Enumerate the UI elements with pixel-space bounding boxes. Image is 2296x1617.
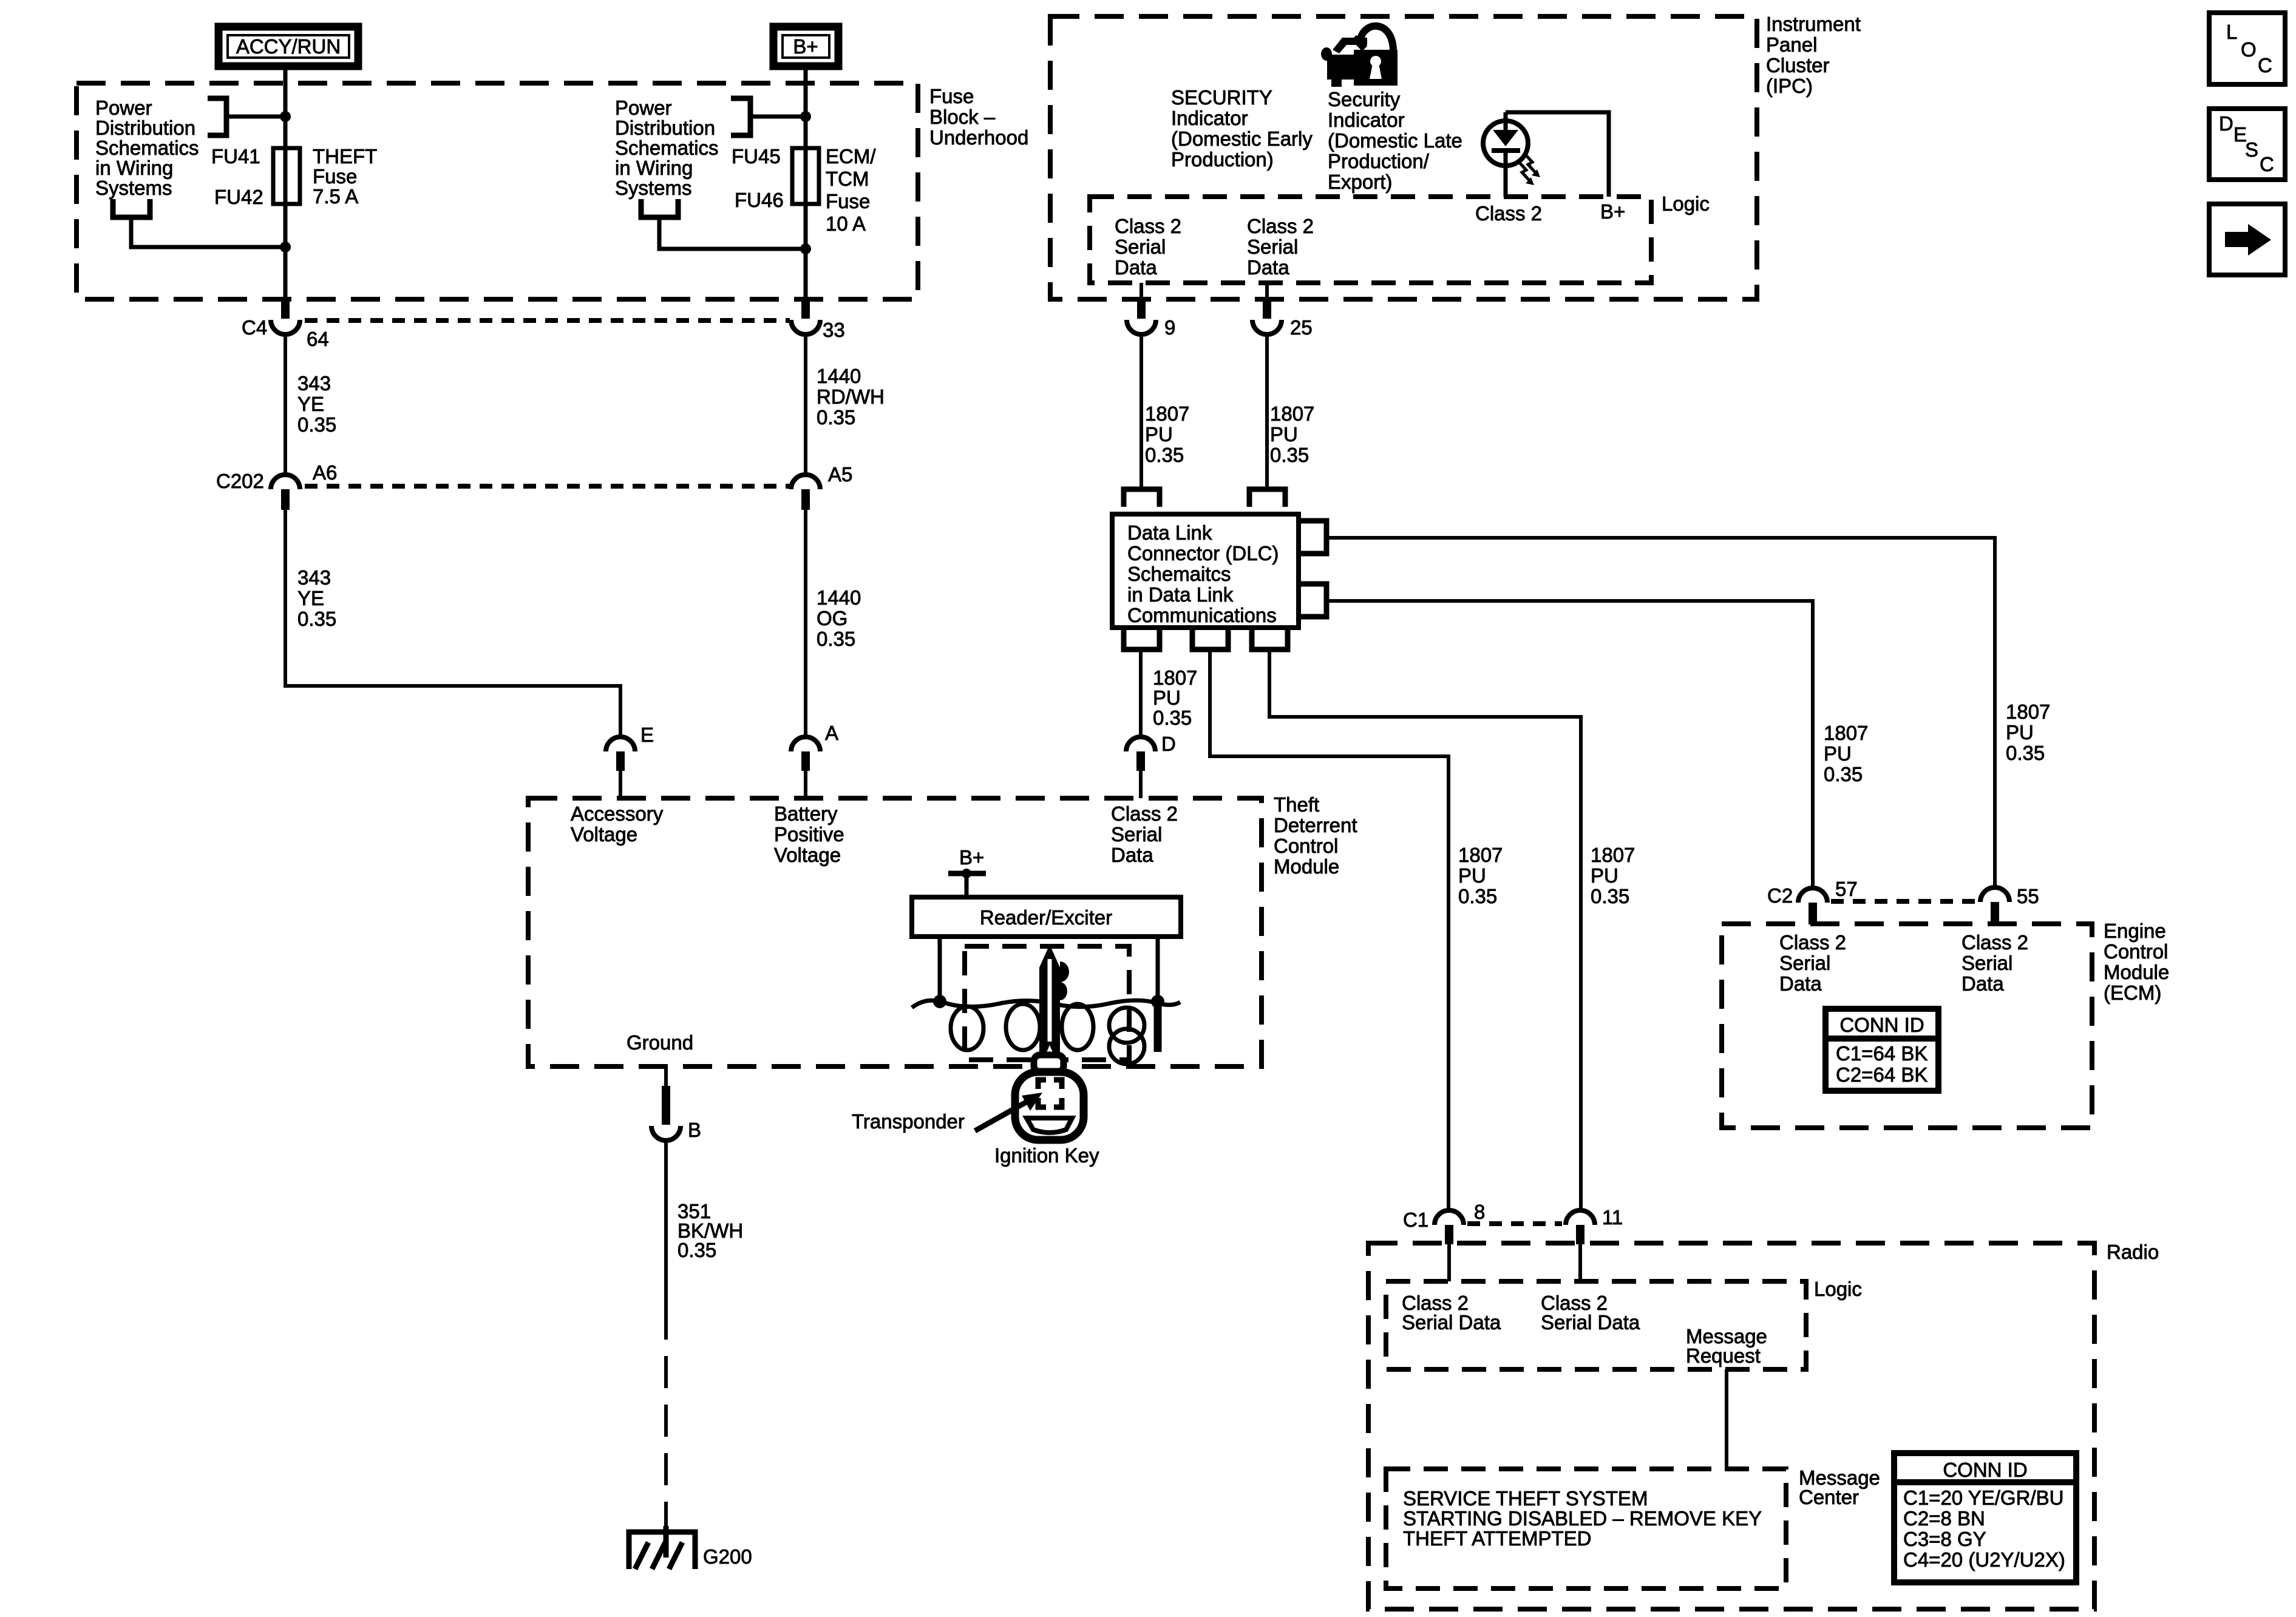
svg-text:C4=20 (U2Y/U2X): C4=20 (U2Y/U2X) — [1903, 1548, 2065, 1571]
LED light arrows — [1519, 154, 1535, 180]
wire 343 YE upper — [284, 334, 287, 475]
wire ground to connector B — [664, 1066, 668, 1087]
svg-text:B+: B+ — [793, 35, 818, 58]
svg-text:55: 55 — [2017, 885, 2039, 907]
svg-text:Center: Center — [1799, 1486, 1859, 1508]
svg-text:11: 11 — [1602, 1206, 1623, 1229]
label Class 2 Serial Data (ECM 57) — [1779, 931, 1846, 995]
svg-text:Class 2: Class 2 — [1961, 931, 2028, 954]
svg-text:Communications: Communications — [1127, 604, 1277, 626]
label Class 2 Serial Data (theft module) — [1111, 802, 1178, 866]
wire LED to B+ leg — [1506, 112, 1609, 197]
label 343 YE 0.35 lower — [297, 566, 336, 630]
LED security lamp — [1483, 112, 1528, 197]
svg-text:Data: Data — [1779, 972, 1822, 995]
svg-text:Underhood: Underhood — [929, 126, 1028, 149]
svg-text:8: 8 — [1474, 1201, 1485, 1223]
junction node left coil — [933, 995, 946, 1008]
label Message Request — [1686, 1325, 1767, 1367]
svg-text:Class 2: Class 2 — [1115, 215, 1181, 237]
svg-text:Instrument: Instrument — [1766, 13, 1861, 35]
svg-text:Security: Security — [1328, 88, 1401, 110]
svg-text:1807: 1807 — [1153, 666, 1197, 689]
connector 55 at ECM — [1980, 887, 2009, 902]
coil loop 2 — [1006, 1004, 1040, 1050]
svg-text:C4: C4 — [242, 316, 267, 339]
svg-text:C1=64 BK: C1=64 BK — [1836, 1042, 1927, 1065]
DESC legend box — [2209, 109, 2285, 180]
svg-text:0.35: 0.35 — [817, 628, 855, 650]
svg-text:10 A: 10 A — [826, 212, 866, 235]
svg-text:1807: 1807 — [1824, 722, 1868, 744]
svg-text:O: O — [2241, 38, 2257, 61]
svg-text:0.35: 0.35 — [297, 608, 336, 630]
label 1807 PU 0.35 (wire 8) — [1458, 844, 1503, 907]
connector 33 — [801, 299, 810, 319]
wire 343 YE lower to E — [285, 510, 620, 737]
svg-text:Cluster: Cluster — [1766, 54, 1830, 76]
theft deterrent control module dashed box — [528, 798, 1262, 1066]
label Instrument Panel Cluster (IPC) — [1766, 13, 1861, 97]
connector B — [651, 1126, 681, 1141]
coil loop 3 — [1062, 1004, 1093, 1050]
svg-text:Class 2: Class 2 — [1247, 215, 1314, 237]
ignition key head — [1015, 1072, 1084, 1140]
LOC legend box — [2209, 13, 2285, 84]
svg-text:A5: A5 — [828, 463, 852, 486]
svg-text:C1=20 YE/GR/BU: C1=20 YE/GR/BU — [1903, 1486, 2063, 1509]
svg-text:PU: PU — [1591, 864, 1618, 887]
svg-text:Ground: Ground — [627, 1031, 693, 1054]
ECM dashed box — [1722, 924, 2092, 1128]
svg-text:YE: YE — [297, 393, 324, 415]
svg-text:Production): Production) — [1171, 148, 1274, 171]
label Security Indicator (Domestic Late Production/Export) — [1328, 88, 1462, 193]
DLC top pin bracket right — [1249, 489, 1285, 507]
svg-text:D: D — [2219, 112, 2233, 135]
svg-text:Request: Request — [1686, 1344, 1761, 1367]
arrow legend box — [2209, 204, 2285, 275]
svg-text:1807: 1807 — [2006, 700, 2050, 723]
label Theft Deterrent Control Module — [1274, 793, 1357, 878]
security indicator icon car with padlock — [1321, 38, 1398, 87]
svg-text:RD/WH: RD/WH — [817, 385, 885, 408]
label Transponder — [852, 1110, 965, 1133]
svg-text:Logic: Logic — [1662, 192, 1710, 215]
label Class 2 Serial Data (radio 8) — [1402, 1292, 1501, 1334]
label 1807 PU 0.35 (wire D) — [1153, 666, 1197, 729]
svg-text:(ECM): (ECM) — [2104, 981, 2161, 1004]
label Battery Positive Voltage — [774, 802, 844, 866]
svg-text:Control: Control — [2104, 940, 2168, 963]
svg-text:Data: Data — [1115, 256, 1157, 279]
svg-text:Serial: Serial — [1111, 823, 1162, 846]
svg-text:Block –: Block – — [929, 106, 996, 128]
label 351 BK/WH 0.35 — [678, 1200, 743, 1261]
wire 1807 PU pin25 to DLC — [1265, 334, 1269, 489]
svg-text:B+: B+ — [1600, 200, 1625, 223]
svg-text:Class 2: Class 2 — [1779, 931, 1846, 954]
svg-text:Module: Module — [2104, 961, 2169, 983]
svg-text:PU: PU — [1145, 423, 1173, 446]
label Fuse Block - Underhood — [929, 85, 1028, 149]
svg-text:0.35: 0.35 — [1824, 763, 1863, 785]
svg-text:Positive: Positive — [774, 823, 844, 846]
DLC bottom pin bracket middle — [1192, 630, 1228, 649]
svg-text:Systems: Systems — [615, 177, 692, 199]
connector plane line C4 row — [305, 318, 790, 323]
DLC right pin bracket lower — [1301, 584, 1326, 617]
svg-text:THEFT: THEFT — [313, 145, 377, 168]
svg-text:B: B — [688, 1119, 701, 1141]
svg-text:Schematics: Schematics — [615, 137, 719, 159]
DLC top pin bracket left — [1124, 489, 1160, 507]
connector 25 — [1265, 283, 1269, 299]
svg-text:STARTING DISABLED – REMOVE KEY: STARTING DISABLED – REMOVE KEY — [1403, 1507, 1762, 1530]
svg-text:Power: Power — [95, 97, 152, 119]
connector plane line C1 row radio — [1467, 1221, 1562, 1226]
svg-text:0.35: 0.35 — [2006, 742, 2045, 764]
svg-text:PU: PU — [2006, 721, 2034, 744]
svg-text:0.35: 0.35 — [1145, 444, 1184, 466]
connector A — [791, 737, 820, 751]
svg-text:Voltage: Voltage — [774, 844, 841, 866]
power feed box ACCY/RUN — [219, 27, 358, 66]
label SECURITY Indicator (Domestic Early Production) — [1171, 86, 1313, 171]
svg-text:64: 64 — [307, 328, 329, 350]
svg-text:0.35: 0.35 — [678, 1239, 716, 1261]
svg-text:A6: A6 — [313, 461, 337, 484]
svg-text:1440: 1440 — [817, 365, 861, 387]
svg-text:FU46: FU46 — [735, 189, 784, 211]
connector C2 57 at ECM — [1798, 888, 1827, 903]
label Radio — [2107, 1241, 2159, 1263]
svg-text:B+: B+ — [959, 846, 984, 869]
svg-text:Distribution: Distribution — [615, 117, 715, 139]
svg-text:Data Link: Data Link — [1127, 521, 1212, 544]
connector D — [1126, 737, 1155, 751]
svg-text:(Domestic Late: (Domestic Late — [1328, 129, 1462, 152]
wire dashed to G200 — [664, 1307, 668, 1532]
DLC right pin bracket upper — [1301, 521, 1326, 554]
svg-text:C2=64 BK: C2=64 BK — [1836, 1063, 1927, 1086]
svg-text:CONN ID: CONN ID — [1943, 1459, 2027, 1481]
connector 9 — [1140, 283, 1143, 299]
svg-text:Serial Data: Serial Data — [1541, 1311, 1640, 1334]
svg-text:PU: PU — [1270, 423, 1298, 446]
labels FU45 FU46 — [732, 145, 784, 211]
IPC logic dashed box — [1090, 197, 1651, 283]
svg-text:Class 2: Class 2 — [1475, 202, 1542, 225]
svg-text:ECM/: ECM/ — [826, 145, 876, 168]
coil loop 1 — [951, 1006, 983, 1050]
svg-text:Data: Data — [1961, 972, 2004, 995]
svg-text:in Data Link: in Data Link — [1127, 583, 1234, 606]
label 1807 PU 0.35 (pin 9) — [1145, 402, 1189, 466]
svg-text:SECURITY: SECURITY — [1171, 86, 1272, 109]
svg-text:Voltage: Voltage — [571, 823, 637, 846]
svg-text:Battery: Battery — [774, 802, 838, 825]
svg-text:Accessory: Accessory — [571, 802, 664, 825]
label Logic (IPC) — [1662, 192, 1710, 215]
svg-text:Systems: Systems — [95, 177, 172, 199]
DLC bottom pin bracket right — [1252, 630, 1288, 649]
wire bracket drop — [659, 217, 806, 249]
B+ internal feed symbol — [948, 846, 986, 898]
connector A5 — [791, 475, 820, 489]
fuse block underhood dashed box — [76, 83, 918, 299]
svg-text:OG: OG — [817, 607, 847, 629]
IPC dashed box — [1050, 16, 1757, 299]
svg-text:C: C — [2258, 54, 2272, 76]
radio dashed box — [1368, 1243, 2094, 1609]
wire reader right leg — [1156, 937, 1160, 1002]
svg-text:Module: Module — [1274, 855, 1339, 878]
coil loop 4 double — [1109, 1008, 1144, 1043]
wire 1440 RD/WH — [804, 334, 807, 475]
label Message Center — [1799, 1466, 1880, 1508]
junction node right coil — [1151, 995, 1164, 1008]
reference bracket upper left — [208, 98, 226, 135]
wire bracket to ACCY wire — [226, 115, 285, 119]
svg-text:Serial: Serial — [1247, 236, 1298, 258]
svg-text:Production/: Production/ — [1328, 150, 1430, 172]
exciter coil wavy line — [912, 1000, 1180, 1008]
wire reader left leg — [938, 937, 942, 1002]
svg-text:in Wiring: in Wiring — [95, 157, 173, 179]
label 1440 RD/WH 0.35 — [817, 365, 885, 429]
svg-text:SERVICE THEFT SYSTEM: SERVICE THEFT SYSTEM — [1403, 1487, 1648, 1510]
label 1440 OG 0.35 — [817, 586, 861, 650]
svg-text:(Domestic Early: (Domestic Early — [1171, 127, 1313, 150]
label Logic (radio) — [1814, 1278, 1862, 1300]
svg-text:1807: 1807 — [1145, 402, 1189, 425]
label THEFT Fuse 7.5 A — [313, 145, 377, 208]
svg-text:Control: Control — [1274, 835, 1338, 857]
svg-text:Indicator: Indicator — [1328, 109, 1405, 131]
svg-text:D: D — [1161, 733, 1176, 755]
radio logic dashed box — [1386, 1281, 1806, 1369]
label SERVICE THEFT SYSTEM STARTING DISABLED REMOVE KEY THEFT ATTEMPTED — [1403, 1487, 1762, 1550]
svg-text:Connector (DLC): Connector (DLC) — [1127, 542, 1279, 564]
svg-text:Fuse: Fuse — [826, 190, 870, 212]
wire bracket to B+ wire — [750, 115, 806, 119]
label Class 2 (LED) — [1475, 200, 1625, 225]
connector plane line C2 row ECM — [1831, 899, 1977, 904]
svg-text:Ignition Key: Ignition Key — [994, 1144, 1099, 1167]
label 1807 PU 0.35 (wire 57) — [1824, 722, 1868, 785]
svg-text:G200: G200 — [703, 1545, 752, 1568]
junction node — [280, 242, 291, 253]
svg-text:0.35: 0.35 — [817, 406, 855, 429]
svg-text:Distribution: Distribution — [95, 117, 195, 139]
label 343 YE 0.35 — [297, 372, 336, 436]
Reader/Exciter box — [912, 897, 1181, 937]
connector plane line C202 row — [305, 484, 790, 489]
svg-text:343: 343 — [297, 372, 331, 395]
transponder chip marks — [1038, 1080, 1062, 1107]
svg-text:Deterrent: Deterrent — [1274, 814, 1357, 836]
svg-text:FU41: FU41 — [211, 145, 260, 168]
svg-text:C: C — [2260, 153, 2274, 175]
ignition key blade — [1039, 944, 1069, 1056]
svg-text:1807: 1807 — [1458, 844, 1503, 866]
DLC box — [1112, 514, 1299, 628]
svg-text:33: 33 — [823, 319, 845, 341]
svg-text:Serial Data: Serial Data — [1402, 1311, 1501, 1334]
fuse FU45/FU46 ECM/TCM 10A — [792, 66, 819, 299]
svg-text:Indicator: Indicator — [1171, 107, 1248, 129]
svg-text:Logic: Logic — [1814, 1278, 1862, 1300]
svg-text:Serial: Serial — [1961, 952, 2012, 974]
svg-text:YE: YE — [297, 587, 324, 609]
svg-text:Data: Data — [1247, 256, 1289, 279]
label Ignition Key — [994, 1144, 1099, 1167]
svg-text:C202: C202 — [216, 470, 264, 492]
reference bracket lower left — [113, 199, 150, 217]
label 1807 PU 0.35 (pin 25) — [1270, 402, 1314, 466]
wire DLC to connector D — [1139, 649, 1143, 737]
label Class 2 Serial Data (ECM 55) — [1961, 931, 2028, 995]
svg-text:343: 343 — [297, 566, 331, 589]
svg-text:0.35: 0.35 — [1270, 444, 1309, 466]
svg-text:Schematics: Schematics — [95, 137, 199, 159]
svg-text:L: L — [2226, 21, 2237, 43]
svg-text:PU: PU — [1824, 742, 1852, 765]
message center dashed box — [1386, 1469, 1786, 1588]
svg-text:7.5 A: 7.5 A — [313, 185, 358, 208]
label Power Distribution Schematics in Wiring Systems (right) — [615, 97, 719, 199]
svg-text:Reader/Exciter: Reader/Exciter — [980, 906, 1112, 929]
svg-text:0.35: 0.35 — [1153, 707, 1192, 729]
label Power Distribution Schematics in Wiring Systems (left) — [95, 97, 199, 199]
junction node — [800, 111, 811, 122]
svg-text:1807: 1807 — [1270, 402, 1314, 425]
fuse FU41/FU42 THEFT 7.5A — [273, 66, 300, 299]
svg-text:C1: C1 — [1403, 1209, 1428, 1231]
wire 1807 PU pin9 to DLC — [1140, 334, 1143, 489]
svg-text:9: 9 — [1164, 316, 1175, 339]
svg-text:Fuse: Fuse — [929, 85, 974, 107]
reference bracket upper right — [731, 98, 750, 135]
svg-text:C3=8 GY: C3=8 GY — [1903, 1528, 1986, 1550]
power feed box B+ — [773, 27, 838, 66]
svg-text:ACCY/RUN: ACCY/RUN — [236, 35, 341, 58]
wire ACCY feed to connector C4 — [281, 299, 290, 319]
DLC bottom pin bracket left — [1124, 630, 1160, 649]
junction node — [280, 111, 291, 122]
svg-text:Transponder: Transponder — [852, 1110, 965, 1133]
svg-text:FU45: FU45 — [732, 145, 781, 168]
svg-text:Power: Power — [615, 97, 672, 119]
connector 11 at radio — [1566, 1210, 1595, 1225]
label Accessory Voltage — [571, 802, 664, 846]
svg-text:PU: PU — [1153, 686, 1181, 709]
svg-text:0.35: 0.35 — [1591, 885, 1629, 907]
svg-text:CONN ID: CONN ID — [1839, 1014, 1924, 1036]
svg-text:Panel: Panel — [1766, 33, 1817, 56]
svg-text:57: 57 — [1835, 878, 1858, 900]
svg-text:Schemaitcs: Schemaitcs — [1127, 563, 1231, 585]
svg-text:TCM: TCM — [826, 168, 869, 190]
svg-text:S: S — [2245, 138, 2258, 161]
junction node — [800, 243, 811, 254]
svg-text:E: E — [640, 724, 654, 746]
ignition key slot — [1027, 1118, 1072, 1133]
svg-text:C2: C2 — [1767, 884, 1793, 907]
svg-text:Serial: Serial — [1779, 952, 1830, 974]
label 1807 PU 0.35 (wire 55) — [2006, 700, 2050, 764]
svg-text:Export): Export) — [1328, 171, 1392, 193]
svg-text:Theft: Theft — [1274, 793, 1319, 816]
label ECM/ TCM Fuse 10 A — [826, 145, 876, 235]
wire DLC to ECM pin 57 — [1326, 601, 1813, 888]
wire bracket drop — [131, 217, 285, 247]
svg-text:PU: PU — [1458, 864, 1486, 887]
reference bracket lower right — [641, 199, 678, 217]
labels FU41 FU42 — [211, 145, 263, 208]
label Engine Control Module (ECM) — [2104, 920, 2169, 1004]
svg-text:A: A — [825, 722, 838, 744]
transponder zone dashed box — [965, 946, 1129, 1060]
label Class 2 Serial Data (IPC pin 9) — [1115, 215, 1181, 279]
label Ground — [627, 1031, 693, 1054]
label 1807 PU 0.35 (wire 11) — [1591, 844, 1635, 907]
svg-text:THEFT ATTEMPTED: THEFT ATTEMPTED — [1403, 1527, 1591, 1550]
svg-text:Radio: Radio — [2107, 1241, 2159, 1263]
wire DLC to ECM pin 55 — [1326, 538, 1995, 887]
svg-text:1807: 1807 — [1591, 844, 1635, 866]
wire DLC to radio pin 8 — [1210, 649, 1449, 1210]
svg-text:25: 25 — [1290, 316, 1313, 339]
svg-text:Class 2: Class 2 — [1111, 802, 1178, 825]
svg-text:0.35: 0.35 — [297, 413, 336, 436]
svg-text:(IPC): (IPC) — [1766, 75, 1813, 97]
svg-text:0.35: 0.35 — [1458, 885, 1497, 907]
svg-text:in Wiring: in Wiring — [615, 157, 693, 179]
coil end stub — [1154, 1002, 1162, 1052]
ECM CONN ID table — [1826, 1009, 1938, 1091]
svg-text:C2=8 BN: C2=8 BN — [1903, 1507, 1985, 1530]
label Class 2 Serial Data (IPC pin 25) — [1247, 215, 1314, 279]
connector C202 A6 — [271, 475, 300, 489]
connector C4 — [271, 320, 300, 334]
svg-text:FU42: FU42 — [214, 186, 263, 208]
radio CONN ID table — [1894, 1453, 2076, 1582]
svg-text:Serial: Serial — [1115, 236, 1166, 258]
connector C1 8 at radio — [1435, 1210, 1464, 1225]
svg-text:Engine: Engine — [2104, 920, 2166, 942]
ignition key collar — [1034, 1055, 1064, 1072]
wire message request to message center — [1725, 1369, 1728, 1469]
wire 351 BK/WH — [664, 1141, 668, 1307]
label Class 2 Serial Data (radio 11) — [1541, 1292, 1640, 1334]
wire DLC to radio pin 11 — [1269, 649, 1581, 1210]
svg-text:1440: 1440 — [817, 586, 861, 609]
svg-text:Data: Data — [1111, 844, 1153, 866]
ground G200 symbol — [629, 1526, 695, 1569]
svg-text:Fuse: Fuse — [313, 165, 357, 188]
wire 1440 OG to A — [804, 510, 807, 737]
connector E — [606, 737, 635, 751]
transponder arrow — [975, 1100, 1030, 1131]
label Data Link Connector (DLC) Schemaitcs in Data Link Communications — [1127, 521, 1279, 626]
label G200 — [703, 1545, 752, 1568]
